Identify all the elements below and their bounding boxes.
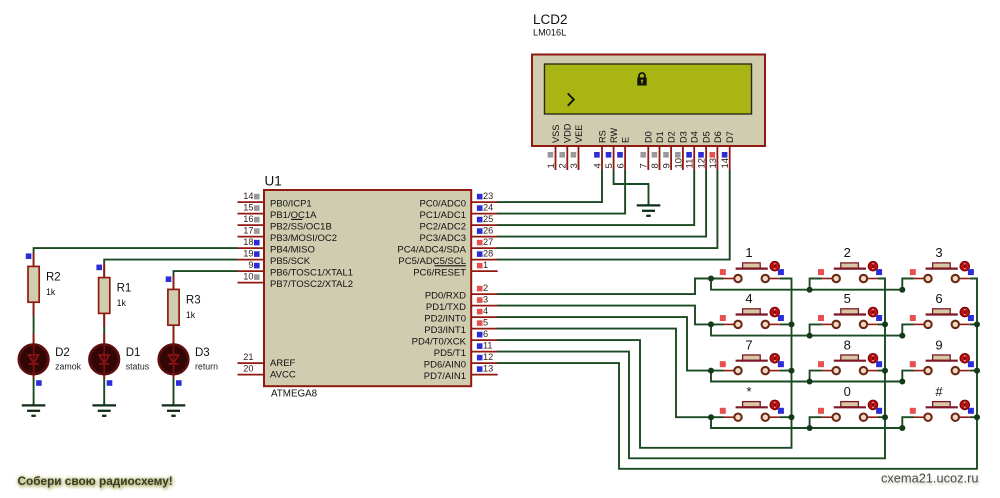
LCD2 label [533,12,568,38]
svg-text:1: 1 [546,163,557,168]
wire PB to R/D chain x=104.2 [104,260,237,404]
svg-text:VEE: VEE [574,125,584,143]
svg-text:2: 2 [558,163,569,168]
wire PC4 to LCD D6 [497,170,717,248]
LED D2 (zamok) [19,333,82,386]
junction row 2 riser B [899,333,905,339]
LCD2 pin 10 (D3) [673,131,688,170]
push button 1 [720,245,784,282]
U1 value label ATMEGA8 [271,389,318,400]
U1 pin 23 (PC0/ADC0) [420,191,498,209]
svg-text:5: 5 [604,163,615,168]
push button 5 [818,291,882,328]
LCD2 pin 4 (RS) [592,130,607,170]
svg-text:PD6/AIN0: PD6/AIN0 [424,359,466,370]
LCD2 pin 5 (RW) [604,128,619,170]
svg-text:PD7/AIN1: PD7/AIN1 [424,371,466,382]
junction row 3 riser A [807,379,813,385]
svg-text:PD1/TXD: PD1/TXD [426,302,466,313]
svg-text:D1: D1 [655,131,665,143]
svg-text:12: 12 [697,158,708,169]
svg-text:PD2/INT0: PD2/INT0 [424,313,466,324]
svg-text:1k: 1k [186,310,196,320]
wire keypad row net 1 [711,279,914,290]
svg-text:PB3/MOSI/OC2: PB3/MOSI/OC2 [270,233,337,244]
ground (LED x=104.2) [92,403,116,416]
U1 pin 25 (PC2/ADC2) [420,214,498,232]
svg-text:10: 10 [673,158,684,169]
svg-text:Собери свою радиосхему!: Собери свою радиосхему! [18,474,173,488]
svg-text:6: 6 [935,291,942,306]
U1 pin 11 (PD5/T1) [434,341,498,359]
junction column 3 row 3 [974,368,980,374]
svg-text:LM016L: LM016L [533,28,566,38]
wire PC3 to LCD D5 [497,170,706,237]
svg-text:ATMEGA8: ATMEGA8 [271,389,318,400]
junction row 1 left [708,276,714,282]
push button 4 [720,291,784,328]
U1 pin 26 (PC3/ADC3) [420,226,498,244]
svg-text:D3: D3 [195,347,210,359]
push button 6 [910,291,974,328]
svg-text:D6: D6 [713,131,723,143]
junction row 3 left [708,368,714,374]
junction column 1 row 2 [789,321,795,327]
svg-text:3: 3 [483,295,488,305]
svg-text:4: 4 [592,163,603,168]
U1 pin 10 (PB7/TOSC2/XTAL2) [238,272,354,290]
LCD2 pin 1 (VSS) [546,125,561,170]
svg-text:PC5/ADC5/SCL: PC5/ADC5/SCL [398,256,466,267]
push button 9 [910,337,974,374]
U1 pin 16 (PB2/SS/OC1B) [238,214,332,232]
svg-text:18: 18 [243,237,253,247]
LCD2 LM016L display body [532,55,765,147]
push button 3 [910,245,974,282]
U1 pin 21 (AREF) [238,352,296,369]
ground (LED x=33.6) [22,403,46,416]
svg-text:11: 11 [483,341,493,351]
LED D1 (status) [89,333,149,386]
svg-text:23: 23 [483,191,493,201]
svg-text:13: 13 [483,364,493,374]
svg-text:5: 5 [844,291,851,306]
svg-text:D0: D0 [644,131,654,143]
caption bottom-left [18,474,173,488]
svg-text:D5: D5 [702,131,712,143]
svg-text:PB7/TOSC2/XTAL2: PB7/TOSC2/XTAL2 [270,279,353,290]
svg-text:4: 4 [483,306,488,316]
svg-text:PB0/ICP1: PB0/ICP1 [270,198,312,209]
U1 pin 15 (PB1/OC1A) [238,203,318,221]
svg-text:PC3/ADC3: PC3/ADC3 [420,233,466,244]
svg-text:2: 2 [483,283,488,293]
wire keypad row net 3 [711,371,914,382]
svg-text:9: 9 [662,163,673,168]
svg-text:R3: R3 [186,294,201,306]
wire PC1 to LCD E [497,170,625,214]
LCD2 pin 11 (D4) [685,131,700,170]
wire PC2 to LCD D4 [497,170,694,225]
svg-text:PD0/RXD: PD0/RXD [425,290,466,301]
wire PD1 keypad row 2 [497,306,724,325]
svg-text:13: 13 [708,158,719,169]
junction column 1 row 3 [789,368,795,374]
svg-text:D2: D2 [667,131,677,143]
U1 pin 3 (PD1/TXD) [426,295,498,313]
svg-text:PB2/SS/OC1B: PB2/SS/OC1B [270,221,332,232]
junction column 1 row 4 [789,414,795,420]
svg-text:3: 3 [935,245,942,260]
push button 7 [720,337,784,374]
svg-text:D3: D3 [678,131,688,143]
LCD arrow glyph [568,94,574,106]
U1 pin 19 (PB5/SCK) [238,249,311,267]
junction column 2 row 3 [882,368,888,374]
svg-text:11: 11 [685,159,696,169]
svg-text:#: # [935,384,943,399]
push button 0 [818,384,882,421]
LCD2 pin 2 (VDD) [558,123,573,170]
U1 pin 4 (PD2/INT0) [424,306,497,324]
svg-text:27: 27 [483,237,493,247]
svg-text:14: 14 [720,158,731,169]
LCD2 pin 9 (D2) [662,131,677,170]
junction row 1 riser A [807,287,813,293]
svg-text:D1: D1 [126,347,141,359]
svg-text:1: 1 [745,245,752,260]
svg-text:PC4/ADC4/SDA: PC4/ADC4/SDA [397,244,466,255]
svg-text:8: 8 [844,337,851,352]
push button * [720,384,784,421]
svg-text:PD4/T0/XCK: PD4/T0/XCK [412,336,467,347]
U1 pin 1 (PC6/RESET) [413,260,497,278]
svg-text:8: 8 [650,163,661,168]
resistor R3 [166,275,201,338]
U1 pin 24 (PC1/ADC1) [420,203,498,221]
U1 pin 20 (AVCC) [238,364,296,381]
wire PC5 to LCD D7 [497,170,730,260]
LCD lock glyph [637,73,646,86]
junction row 4 left [708,414,714,420]
svg-text:PD3/INT1: PD3/INT1 [424,325,466,336]
svg-text:cxema21.ucoz.ru: cxema21.ucoz.ru [881,471,978,486]
svg-text:RW: RW [609,128,619,143]
svg-text:PC1/ADC1: PC1/ADC1 [420,210,466,221]
svg-text:6: 6 [616,163,627,168]
LCD2 pin 8 (D1) [650,131,665,170]
junction row 1 riser B [899,287,905,293]
svg-text:R2: R2 [46,271,61,283]
ground (LCD RW) [637,203,661,216]
svg-text:20: 20 [243,364,253,374]
svg-text:E: E [621,137,631,143]
U1 pin 2 (PD0/RXD) [425,283,498,301]
svg-text:2: 2 [844,245,851,260]
svg-text:24: 24 [483,203,493,213]
svg-text:17: 17 [243,226,253,236]
wire keypad row net 2 [711,324,914,335]
svg-text:9: 9 [248,260,253,270]
svg-text:PB6/TOSC1/XTAL1: PB6/TOSC1/XTAL1 [270,267,353,278]
U1 pin 17 (PB3/MOSI/OC2) [238,226,338,244]
U1 pin 13 (PD7/AIN1) [424,364,498,382]
junction column 3 row 4 [974,414,980,420]
LCD2 pin 3 (VEE) [569,125,584,170]
junction column 2 row 2 [882,321,888,327]
svg-text:RS: RS [597,130,607,143]
svg-text:VDD: VDD [563,123,573,143]
U1 pin 9 (PB6/TOSC1/XTAL1) [238,260,354,278]
svg-text:PB4/MISO: PB4/MISO [270,244,315,255]
junction row 2 riser A [807,333,813,339]
push button # [910,384,974,421]
svg-text:5: 5 [483,318,488,328]
LCD2 pin 7 (D0) [639,131,654,170]
svg-text:zamok: zamok [55,362,82,372]
svg-text:PC6/RESET: PC6/RESET [413,267,466,278]
svg-text:D2: D2 [55,347,70,359]
wire PB to R/D chain x=173.5 [174,271,238,404]
ground (LED x=173.5) [162,403,186,416]
microcontroller U1 body (ATMEGA8) [264,190,471,386]
svg-text:1: 1 [483,260,488,270]
junction column 2 row 4 [882,414,888,420]
wire PC0 to LCD RS [497,170,602,202]
push button 2 [818,245,882,282]
U1 pin 28 (PC5/ADC5/SCL) [398,249,497,267]
wire keypad column 1 to PD4 [497,279,792,448]
LED D3 (return) [159,333,218,386]
junction row 2 left [708,321,714,327]
junction column 3 row 2 [974,321,980,327]
svg-text:7: 7 [745,337,752,352]
svg-text:3: 3 [569,163,580,168]
svg-text:19: 19 [243,249,253,259]
wire keypad column 2 to PD5 [497,279,885,459]
svg-text:26: 26 [483,226,493,236]
svg-text:AVCC: AVCC [270,370,296,381]
svg-text:21: 21 [243,352,253,362]
svg-text:PB5/SCK: PB5/SCK [270,256,311,267]
LCD2 pin 12 (D5) [697,131,712,170]
wire keypad column 3 to PD6 [497,279,977,469]
junction row 4 riser A [807,425,813,431]
svg-text:15: 15 [243,203,253,213]
svg-text:AREF: AREF [270,358,296,369]
caption bottom-right [881,471,978,486]
svg-text:return: return [195,362,218,372]
LCD2 pin 6 (E) [616,137,631,170]
svg-text:1k: 1k [117,298,127,308]
svg-text:14: 14 [243,191,253,201]
resistor R1 [96,264,131,327]
U1 pin 18 (PB4/MISO) [238,237,315,255]
LCD2 pin 14 (D7) [720,131,735,170]
U1 pin 12 (PD6/AIN0) [424,352,498,370]
svg-text:PC0/ADC0: PC0/ADC0 [420,198,466,209]
svg-text:D7: D7 [725,131,735,143]
svg-text:status: status [126,362,150,372]
svg-text:R1: R1 [117,283,132,295]
svg-text:10: 10 [243,272,253,282]
resistor R2 [26,252,61,315]
U1 pin 6 (PD4/T0/XCK) [412,329,498,347]
U1 reference label [265,174,282,189]
U1 pin 14 (PB0/ICP1) [238,191,312,209]
svg-text:D4: D4 [690,131,700,143]
wire LCD RW to ground [614,170,649,204]
wire PD3 keypad row 4 [497,329,724,418]
junction row 3 riser B [899,379,905,385]
svg-text:LCD2: LCD2 [533,12,568,27]
svg-text:1k: 1k [46,287,56,297]
svg-text:28: 28 [483,249,493,259]
svg-text:16: 16 [243,214,253,224]
svg-text:12: 12 [483,352,493,362]
wire keypad row net 4 [711,417,914,428]
svg-text:25: 25 [483,214,493,224]
U1 pin 5 (PD3/INT1) [424,318,497,336]
wire PB to R/D chain x=33.6 [34,248,238,404]
svg-text:0: 0 [844,384,851,399]
svg-text:6: 6 [483,329,488,339]
push button 8 [818,337,882,374]
LCD2 pin 13 (D6) [708,131,723,170]
wire PD2 keypad row 3 [497,317,724,371]
svg-text:*: * [746,384,751,399]
svg-text:PC2/ADC2: PC2/ADC2 [420,221,466,232]
svg-text:U1: U1 [265,174,282,189]
svg-text:9: 9 [935,337,942,352]
svg-text:7: 7 [639,163,650,168]
svg-text:VSS: VSS [551,125,561,143]
svg-text:PD5/T1: PD5/T1 [434,348,466,359]
svg-text:4: 4 [745,291,752,306]
U1 pin 27 (PC4/ADC4/SDA) [397,237,497,255]
junction row 4 riser B [899,425,905,431]
wire PD0 keypad row 1 [497,279,724,295]
